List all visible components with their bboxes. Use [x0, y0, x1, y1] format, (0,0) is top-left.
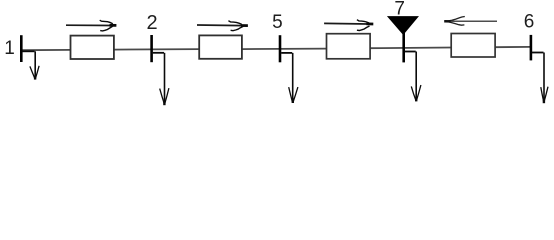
wire box R4 to bus6: [494, 46, 531, 48]
wire box R3 to node7 to box R4: [369, 47, 452, 50]
wire box R2 to bus5 to box R3: [241, 48, 327, 51]
svg-text:2: 2: [147, 12, 158, 34]
load arrow at bus 2: [153, 53, 169, 105]
load arrow at bus 6: [532, 53, 548, 104]
bus 7: [402, 32, 405, 62]
load arrow at bus 7: [405, 52, 421, 102]
wire bus1 to box R1: [21, 49, 71, 51]
branch box R1: [71, 36, 114, 59]
bus 5: [279, 35, 282, 62]
load arrow at bus 5: [281, 53, 298, 103]
flow arrow above box R3 (rightward): [324, 20, 373, 31]
svg-text:7: 7: [394, 0, 405, 20]
flow arrow above box R2 (rightward): [197, 21, 248, 31]
svg-text:5: 5: [272, 12, 283, 33]
flow arrow above box R1 (rightward): [66, 20, 116, 31]
bus 6: [530, 35, 533, 61]
svg-text:1: 1: [4, 38, 15, 59]
flow arrow above box R4 (leftward): [444, 17, 497, 26]
bus 1: [20, 35, 23, 62]
generator triangle at node 7: [388, 17, 418, 35]
branch box R3: [327, 34, 371, 59]
load arrow at bus 1: [22, 51, 39, 79]
branch box R4: [451, 34, 495, 58]
bus 2: [150, 35, 153, 62]
svg-text:6: 6: [524, 12, 535, 33]
branch box R2: [199, 35, 242, 58]
wire box R1 to bus2 to box R2: [113, 48, 200, 51]
